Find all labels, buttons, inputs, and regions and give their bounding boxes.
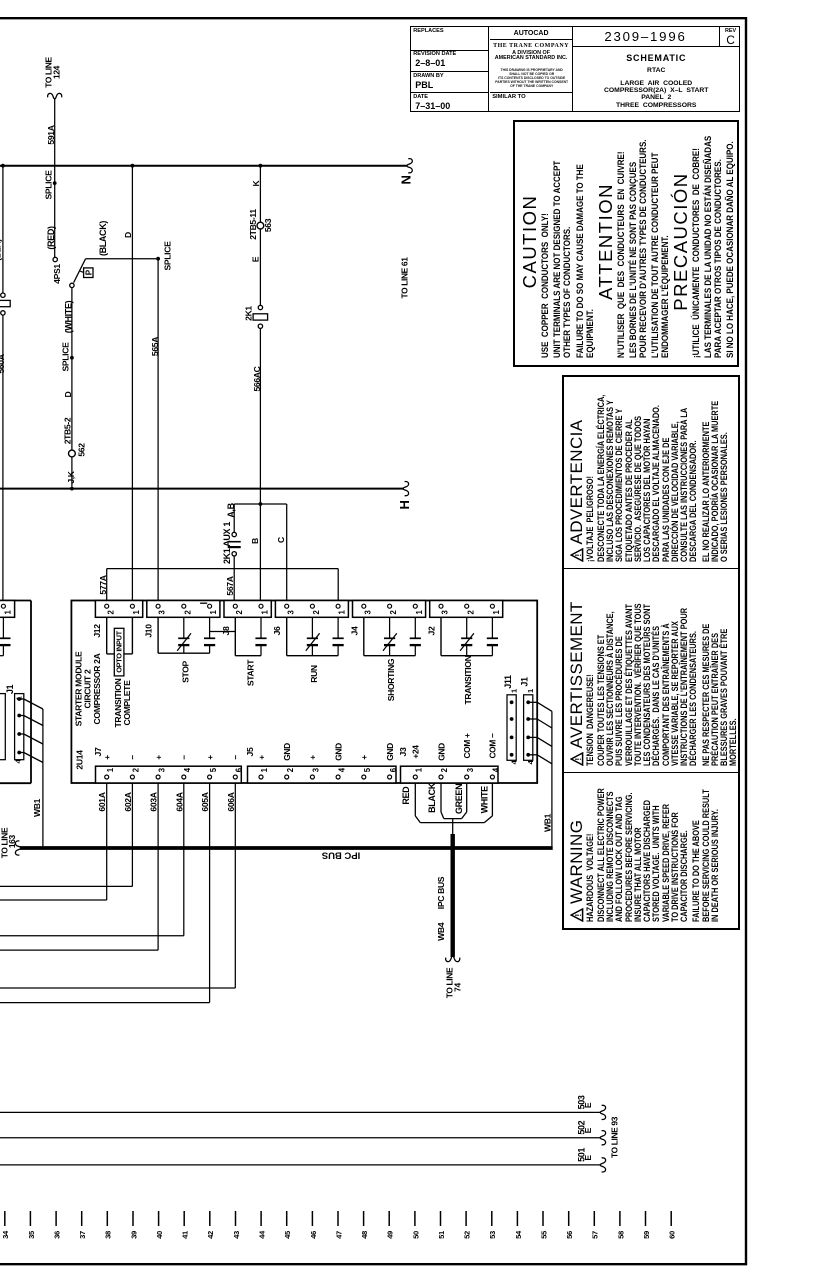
- wire 565A to J10 pin3: [157, 259, 159, 601]
- svg-text:J12: J12: [92, 624, 102, 638]
- J7 pin 4: [182, 775, 186, 779]
- svg-text:P: P: [85, 269, 94, 275]
- wire break symbol: [48, 93, 62, 99]
- svg-text:60: 60: [668, 1231, 677, 1239]
- svg-text:E: E: [251, 256, 261, 262]
- J5 pin 1: [259, 775, 263, 779]
- OPTO INPUT box: [114, 628, 124, 676]
- wire break symbol: [600, 1131, 606, 1145]
- svg-text:+: +: [205, 755, 215, 760]
- line tick 51: [440, 1211, 442, 1226]
- svg-text:J6: J6: [272, 626, 282, 635]
- J5 pin 6: [388, 775, 392, 779]
- svg-text:57: 57: [591, 1231, 600, 1239]
- J1 pin 2: [526, 717, 530, 721]
- svg-text:74: 74: [453, 983, 463, 992]
- line tick 57: [593, 1211, 595, 1226]
- svg-text:+: +: [153, 755, 163, 760]
- svg-text:COMPRESSOR 2A: COMPRESSOR 2A: [92, 653, 102, 724]
- title block: [410, 26, 740, 112]
- svg-text:50: 50: [411, 1231, 420, 1239]
- svg-text:WHITE: WHITE: [480, 786, 490, 814]
- relay coil 2K1: [253, 314, 268, 320]
- line tick 39: [132, 1211, 134, 1226]
- line tick 55: [542, 1211, 544, 1226]
- J3 pin 4: [490, 775, 494, 779]
- wire to 2K1 aux contact: [233, 504, 235, 532]
- J11 pin 4: [510, 753, 514, 757]
- svg-text:605A: 605A: [200, 792, 210, 811]
- svg-text:602A: 602A: [123, 792, 133, 811]
- svg-text:52: 52: [463, 1231, 472, 1239]
- J10 pin 1: [208, 604, 212, 608]
- svg-text:47: 47: [334, 1231, 343, 1239]
- svg-text:COMPLETE: COMPLETE: [122, 680, 132, 726]
- svg-text:+: +: [359, 755, 369, 760]
- svg-text:41: 41: [181, 1230, 190, 1239]
- J5 pin 4: [336, 775, 340, 779]
- junction A,B / B: [259, 502, 263, 506]
- svg-text:38: 38: [104, 1231, 113, 1239]
- line tick 37: [81, 1211, 83, 1226]
- connector J4: [353, 601, 426, 618]
- svg-text:J11: J11: [503, 675, 513, 689]
- starter module (left, clipped) outline: [0, 601, 31, 784]
- line tick 49: [388, 1211, 390, 1226]
- svg-text:58: 58: [616, 1231, 625, 1239]
- svg-text:START: START: [246, 659, 256, 686]
- svg-text:563: 563: [263, 218, 273, 232]
- svg-text:55: 55: [539, 1230, 548, 1239]
- svg-text:2K1 AUX 1: 2K1 AUX 1: [222, 522, 232, 564]
- STOP output contacts (J10): [157, 617, 159, 653]
- left module top connector: [0, 601, 15, 618]
- svg-text:N: N: [399, 175, 414, 184]
- svg-text:+24: +24: [411, 745, 421, 759]
- svg-text:E: E: [583, 1155, 593, 1161]
- svg-text:48: 48: [360, 1231, 369, 1239]
- relay coil 2K1 terminal: [258, 305, 262, 309]
- svg-text:J7: J7: [93, 747, 103, 756]
- svg-text:IPC BUS: IPC BUS: [322, 849, 361, 860]
- wire 601A: [106, 783, 108, 900]
- J10 pin1 flag: [200, 602, 207, 604]
- junction D line / bus N: [131, 164, 135, 168]
- svg-text:2TB5-11: 2TB5-11: [248, 209, 258, 240]
- svg-text:−: −: [128, 755, 138, 760]
- svg-text:TRANSITION: TRANSITION: [463, 655, 473, 704]
- svg-text:36: 36: [53, 1231, 62, 1239]
- switch actuator stem: [80, 271, 85, 273]
- svg-text:H: H: [397, 500, 412, 509]
- svg-text:+: +: [102, 755, 112, 760]
- left module connector J1: [15, 694, 24, 760]
- svg-text:606A: 606A: [226, 792, 236, 811]
- J7 pin 6: [233, 775, 237, 779]
- junction K line / bus N: [259, 164, 263, 168]
- wire break symbol: [600, 1105, 606, 1119]
- svg-text:601A: 601A: [97, 792, 107, 811]
- wire bus H: [0, 488, 404, 490]
- svg-text:COM −: COM −: [488, 733, 498, 758]
- J1 pin 3: [526, 736, 530, 740]
- svg-text:WB1: WB1: [32, 798, 42, 817]
- opto input bracket: [106, 617, 108, 654]
- svg-text:IPC BUS: IPC BUS: [436, 876, 446, 909]
- svg-text:44: 44: [258, 1230, 267, 1239]
- J6 pin 3: [285, 604, 289, 608]
- J6 pin 2: [310, 604, 314, 608]
- svg-text:163: 163: [7, 835, 17, 849]
- J5 pin 5: [362, 775, 366, 779]
- line tick 45: [286, 1211, 288, 1226]
- wire 602A: [131, 783, 133, 886]
- svg-text:SPLICE: SPLICE: [44, 170, 54, 200]
- svg-text:B: B: [250, 538, 260, 544]
- svg-text:GND: GND: [436, 743, 446, 761]
- svg-text:TO LINE: TO LINE: [445, 967, 455, 998]
- svg-text:45: 45: [283, 1230, 292, 1239]
- connector J6: [275, 601, 348, 618]
- svg-text:K: K: [251, 179, 261, 186]
- J10 pin 3: [156, 604, 160, 608]
- line tick 36: [55, 1211, 57, 1226]
- wire net E: [259, 229, 261, 305]
- svg-text:WB4: WB4: [436, 922, 446, 941]
- svg-text:J3: J3: [398, 747, 408, 756]
- line tick 48: [363, 1211, 365, 1226]
- svg-text:35: 35: [27, 1230, 36, 1239]
- svg-text:SHORTING: SHORTING: [386, 658, 396, 701]
- svg-text:J8: J8: [221, 626, 231, 635]
- connector J7: [96, 766, 242, 783]
- svg-text:D: D: [63, 391, 73, 397]
- svg-text:560A: 560A: [0, 354, 6, 373]
- J4 pin 1: [413, 604, 417, 608]
- J12 pin 2: [105, 604, 109, 608]
- connector J5: [248, 766, 397, 783]
- J8 pin 2: [233, 604, 237, 608]
- svg-text:46: 46: [309, 1231, 318, 1239]
- svg-text:124: 124: [52, 65, 62, 79]
- SHORTING output contacts: [363, 617, 365, 655]
- wire 566AC: [259, 328, 261, 504]
- J2 pin 2: [465, 604, 469, 608]
- wire bus N (line to N): [0, 165, 408, 167]
- line tick 56: [568, 1211, 570, 1226]
- contact 2K1 AUX 1 plates: [228, 541, 241, 543]
- svg-text:59: 59: [642, 1231, 651, 1239]
- wire break symbol: [403, 482, 409, 496]
- J11 pin 3: [510, 736, 514, 740]
- J2 pin 3: [439, 604, 443, 608]
- J1 pin 1: [526, 700, 530, 704]
- svg-text:J5: J5: [245, 747, 255, 756]
- svg-text:604A: 604A: [174, 792, 184, 811]
- connector J8: [224, 601, 271, 618]
- J4 pin 2: [388, 604, 392, 608]
- warning notice box: [562, 375, 740, 930]
- terminal 2TB5-11 (563): [257, 222, 264, 229]
- svg-text:GND: GND: [385, 743, 395, 761]
- caution notice box: [513, 120, 739, 367]
- starter module 2U14 outline: [71, 601, 537, 784]
- svg-text:J4: J4: [349, 626, 359, 635]
- connector J1: [524, 695, 533, 761]
- wire 503E: [0, 1111, 601, 1113]
- svg-text:TO LINE 93: TO LINE 93: [610, 1116, 620, 1158]
- J7 pin 2: [130, 775, 134, 779]
- svg-text:SPLICE: SPLICE: [163, 241, 173, 271]
- wire left branch lower: [2, 315, 4, 600]
- left module output contact: [2, 617, 4, 638]
- wire 577A horizontal: [107, 568, 339, 570]
- wire 577A vertical to J6 pin1: [337, 569, 339, 601]
- J10 pin 2: [182, 604, 186, 608]
- wire left branch upper: [2, 166, 4, 293]
- svg-text:BLACK: BLACK: [427, 782, 437, 813]
- J8 pin 1: [259, 604, 263, 608]
- svg-text:577A: 577A: [98, 575, 108, 594]
- svg-text:J1: J1: [5, 685, 15, 695]
- line tick 54: [516, 1211, 518, 1226]
- wire 577A vertical to J12 pin2: [106, 569, 108, 601]
- svg-text:(WHITE): (WHITE): [64, 300, 74, 333]
- svg-text:D: D: [123, 232, 133, 238]
- wire net K: [259, 166, 261, 223]
- switch 4PS1 blade: [74, 259, 86, 283]
- wire net B to J8 pin1: [259, 504, 261, 601]
- left J1 pin 2: [17, 714, 21, 718]
- svg-text:+: +: [256, 755, 266, 760]
- svg-text:(BLACK): (BLACK): [98, 221, 108, 256]
- TRANSITION output contacts: [440, 617, 442, 655]
- J7 pin 1: [105, 775, 109, 779]
- J7 pin 3: [156, 775, 160, 779]
- wire 605A: [209, 783, 211, 1002]
- connector J10: [147, 601, 220, 618]
- svg-text:42: 42: [206, 1231, 215, 1239]
- link J10-1 to J8-2: [210, 631, 236, 633]
- J4 pin 3: [362, 604, 366, 608]
- contact 2K1 AUX 1 terminal: [232, 532, 236, 536]
- J2 pin 1: [490, 604, 494, 608]
- svg-text:(BLK): (BLK): [0, 239, 3, 261]
- svg-text:GREEN: GREEN: [454, 784, 464, 814]
- wire WB1 (left): [42, 709, 44, 847]
- switch 4PS1 terminal: [53, 257, 57, 261]
- splice junction 565A: [156, 257, 160, 261]
- J11 pin 2: [510, 717, 514, 721]
- line tick 42: [209, 1211, 211, 1226]
- svg-text:GND: GND: [333, 743, 343, 761]
- J11 pin 1: [510, 700, 514, 704]
- svg-text:37: 37: [78, 1231, 87, 1239]
- wire break symbol: [15, 841, 21, 855]
- J6 pin 1: [336, 604, 340, 608]
- wire WB1: [551, 711, 553, 847]
- svg-text:−: −: [231, 755, 241, 760]
- svg-text:SPLICE: SPLICE: [61, 342, 71, 372]
- svg-text:!: !: [573, 757, 583, 760]
- line tick 41: [183, 1211, 185, 1226]
- svg-text:56: 56: [565, 1231, 574, 1239]
- svg-text:!: !: [573, 913, 583, 916]
- left module connector J11 (clipped): [0, 694, 5, 760]
- J3 pin 3: [465, 775, 469, 779]
- svg-text:GND: GND: [282, 743, 292, 761]
- wire WB4 IPC bus drop (thick): [451, 834, 455, 957]
- svg-text:RED: RED: [401, 786, 411, 805]
- wire 501E: [0, 1164, 601, 1166]
- svg-text:2U14: 2U14: [75, 750, 85, 770]
- svg-text:54: 54: [514, 1230, 523, 1239]
- line tick 60: [670, 1211, 672, 1226]
- svg-text:562: 562: [77, 443, 87, 457]
- svg-text:43: 43: [232, 1231, 241, 1239]
- svg-text:J2: J2: [427, 626, 437, 635]
- J1 pin 4: [526, 753, 530, 757]
- svg-text:565A: 565A: [150, 337, 160, 356]
- left J1 pin 4: [17, 751, 21, 755]
- svg-text:RUN: RUN: [309, 665, 319, 683]
- svg-text:J,K: J,K: [66, 470, 76, 483]
- svg-text:39: 39: [129, 1231, 138, 1239]
- line tick 50: [414, 1211, 416, 1226]
- svg-text:E: E: [583, 1102, 593, 1108]
- svg-text:40: 40: [155, 1231, 164, 1239]
- wire net C to J6 pin3: [286, 504, 288, 601]
- wire 567A to J8 pin2: [233, 556, 235, 601]
- line tick 40: [158, 1211, 160, 1226]
- line tick 52: [465, 1211, 467, 1226]
- terminal 2TB5-2 (562): [69, 450, 76, 457]
- wire (WHITE)/D to 2TB5-2: [71, 288, 73, 487]
- harness J3 to WB4 IPC bus: [414, 783, 416, 816]
- line tick 53: [491, 1211, 493, 1226]
- splice junction on 591A: [53, 181, 57, 185]
- junction left branch / bus N: [1, 164, 5, 168]
- coil terminal: [1, 293, 5, 297]
- svg-text:2K1: 2K1: [244, 306, 254, 321]
- J7 pin 5: [208, 775, 212, 779]
- line tick 46: [311, 1211, 313, 1226]
- line tick 43: [235, 1211, 237, 1226]
- wire (BLACK) to splice: [86, 258, 159, 260]
- relay coil (left, clipped): [0, 300, 10, 306]
- svg-text:591A: 591A: [46, 125, 56, 144]
- svg-text:2TB5-2: 2TB5-2: [63, 417, 73, 444]
- START output contact (J8): [234, 617, 236, 655]
- svg-text:603A: 603A: [149, 792, 159, 811]
- svg-text:STOP: STOP: [180, 660, 190, 682]
- line tick 59: [645, 1211, 647, 1226]
- switch 4PS1 pressure actuator P: [84, 268, 93, 278]
- J12 pin 1: [130, 604, 134, 608]
- wire to WB4: [452, 819, 454, 834]
- svg-text:−: −: [179, 755, 189, 760]
- line tick 38: [106, 1211, 108, 1226]
- line tick 44: [260, 1211, 262, 1226]
- svg-text:+: +: [308, 755, 318, 760]
- svg-text:J1: J1: [519, 677, 529, 687]
- connector J11: [507, 695, 516, 761]
- svg-text:C: C: [276, 537, 286, 543]
- svg-text:OPTO INPUT: OPTO INPUT: [115, 630, 124, 672]
- left J1 pin 1: [17, 697, 21, 701]
- svg-text:1: 1: [526, 688, 535, 693]
- svg-text:53: 53: [488, 1231, 497, 1239]
- wire 502E: [0, 1137, 601, 1139]
- wire 604A: [183, 783, 185, 936]
- svg-text:567A: 567A: [225, 576, 235, 595]
- wire net D to J12 pin1: [131, 166, 133, 601]
- wire 603A: [157, 783, 159, 950]
- svg-text:J10: J10: [144, 624, 154, 638]
- connector J3: [401, 766, 499, 783]
- svg-text:51: 51: [437, 1230, 446, 1239]
- wire break symbol: [407, 159, 413, 173]
- svg-text:TO LINE 61: TO LINE 61: [400, 257, 410, 299]
- line tick 35: [29, 1211, 31, 1226]
- svg-text:WB1: WB1: [543, 813, 553, 832]
- line tick 58: [619, 1211, 621, 1226]
- svg-text:COM +: COM +: [462, 733, 472, 758]
- J3 pin 1: [413, 775, 417, 779]
- connector J12: [95, 601, 142, 618]
- splice junction on white wire: [70, 356, 74, 360]
- svg-text:566AC: 566AC: [252, 366, 262, 391]
- svg-text:!: !: [573, 553, 583, 556]
- svg-text:49: 49: [386, 1231, 395, 1239]
- wire 591A: [54, 98, 56, 257]
- wire net A,B: [234, 503, 287, 505]
- J3 pin 2: [439, 775, 443, 779]
- svg-text:4PS1: 4PS1: [52, 264, 62, 284]
- switch 4PS1 terminal 2: [70, 283, 74, 287]
- J5 pin 2: [285, 775, 289, 779]
- svg-text:34: 34: [1, 1230, 10, 1239]
- harness J1 to WB1: [528, 701, 537, 703]
- RUN output contacts: [286, 617, 288, 655]
- svg-text:(RED): (RED): [46, 226, 56, 250]
- svg-text:E: E: [583, 1127, 593, 1133]
- line tick 34: [4, 1211, 6, 1226]
- wire break symbol: [446, 956, 460, 962]
- wire IPC BUS (thick): [20, 846, 553, 850]
- wire 606A: [234, 783, 236, 988]
- left J1 pin 3: [17, 732, 21, 736]
- connector J2: [430, 601, 503, 618]
- J5 pin 3: [310, 775, 314, 779]
- line tick 47: [337, 1211, 339, 1226]
- wire break symbol: [600, 1158, 606, 1172]
- junction on bus H: [70, 487, 74, 491]
